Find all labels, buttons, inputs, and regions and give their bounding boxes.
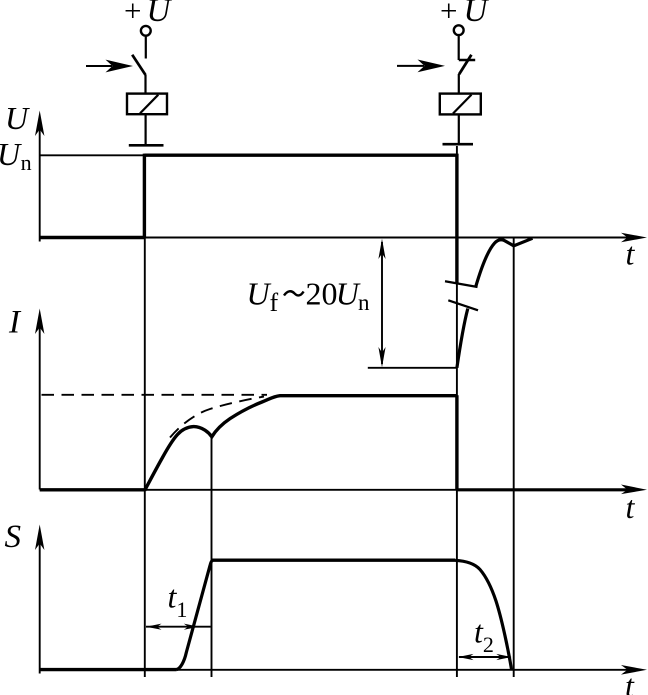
coil K1 diagonal — [140, 95, 158, 114]
S waveform flat top — [212, 559, 455, 562]
U pulse rising edge — [143, 154, 146, 238]
I time axis — [40, 489, 634, 491]
svg-text:n: n — [358, 290, 370, 315]
I axis vertical — [39, 316, 41, 490]
I waveform baseline (before t0) — [40, 488, 145, 491]
wire K1 to bottom bar — [145, 114, 147, 145]
S axis vertical — [39, 532, 41, 674]
terminal circle SW1 — [141, 26, 151, 36]
S time axis arrowhead — [621, 665, 647, 675]
S axis up arrowhead — [35, 525, 44, 551]
U recovery curve lower part (below break) — [457, 309, 468, 368]
svg-text:f: f — [270, 288, 279, 317]
bottom bar terminal 1 — [129, 144, 164, 147]
svg-text:+U: +U — [124, 0, 172, 29]
switch SW2 blade (opening) — [459, 55, 471, 75]
switch SW2 fixed contact bar — [459, 59, 475, 61]
t1 dimension arrow — [146, 624, 211, 630]
I steady-state dashed level — [42, 394, 268, 396]
time line t2 end (x=513.7) — [513, 238, 515, 677]
U axis up arrowhead — [35, 111, 44, 137]
wire SW2 lower lead — [458, 74, 460, 94]
Uf peak level bar — [368, 367, 457, 369]
wire SW1 lower lead — [144, 75, 146, 94]
I zero line after fall — [457, 488, 628, 491]
I waveform rise with armature bump — [145, 396, 457, 491]
time line t0 (x=144.8) — [144, 155, 146, 677]
t2 dimension arrow — [458, 654, 512, 660]
time line t1 end (x=211.5) — [211, 437, 213, 677]
bottom bar terminal 2 — [443, 143, 474, 146]
S waveform rise at t1 — [177, 560, 214, 669]
coil K2 diagonal — [453, 95, 472, 114]
Uf dimension arrow (double headed vertical) — [378, 239, 385, 367]
svg-text:t: t — [626, 236, 636, 272]
I ideal exponential dashed curve — [170, 397, 264, 438]
U axis vertical — [39, 118, 41, 242]
U time axis — [40, 237, 634, 239]
Un reference line — [40, 154, 145, 156]
Uf ~ 20Un label — [247, 276, 371, 317]
U recovery curve upper part — [476, 238, 533, 287]
U pulse top — [144, 153, 457, 156]
relay coil K1 box — [127, 94, 167, 115]
time line t2 start (x=456.9) — [456, 146, 458, 677]
U time axis arrowhead — [621, 233, 647, 243]
wire SW1 upper lead — [145, 36, 147, 59]
I time axis arrowhead — [621, 485, 647, 495]
svg-text:U: U — [5, 100, 30, 136]
svg-text:t: t — [626, 489, 636, 525]
svg-text:20: 20 — [306, 276, 338, 312]
svg-text:U: U — [247, 276, 272, 312]
break mark upper — [445, 281, 478, 287]
I axis up arrowhead — [35, 309, 44, 335]
actuation arrow SW1 — [86, 60, 133, 73]
relay coil K2 box — [440, 94, 481, 115]
svg-text:+U: +U — [440, 0, 489, 29]
switch SW1 blade (open) — [132, 55, 145, 75]
svg-text:S: S — [5, 519, 22, 555]
U pulse falling edge (above break) — [455, 154, 458, 283]
S time axis — [40, 669, 634, 671]
break mark lower — [448, 300, 478, 310]
wire SW2 upper lead — [458, 35, 460, 60]
S waveform fall at t2 — [455, 560, 512, 669]
actuation arrow SW2 — [397, 60, 445, 73]
svg-text:t: t — [625, 668, 635, 695]
wire K2 to bottom bar — [458, 114, 460, 144]
U waveform baseline (before pulse) — [40, 236, 145, 239]
terminal circle SW2 — [454, 25, 464, 35]
svg-text:I: I — [8, 305, 22, 341]
I falling edge — [455, 395, 458, 490]
S waveform baseline (before rise) — [40, 668, 177, 671]
